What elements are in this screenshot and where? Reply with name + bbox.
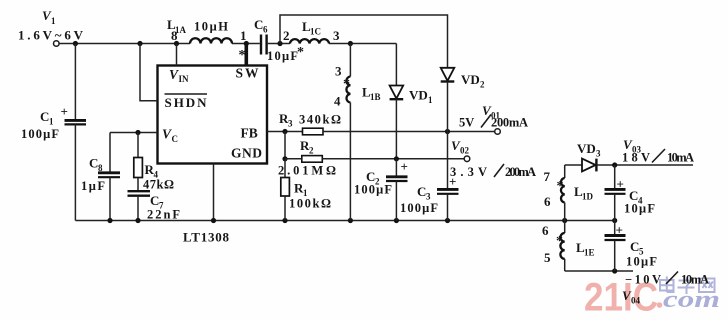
svg-text:3: 3: [288, 119, 293, 129]
svg-text:4: 4: [334, 94, 341, 109]
wire V02 line left: [285, 158, 302, 160]
IC U1 LT1308 box: [158, 66, 268, 164]
node junction C1 tap: [73, 41, 78, 46]
svg-text:FB: FB: [241, 126, 258, 141]
svg-text:1: 1: [51, 16, 56, 26]
inductor L1E: [542, 221, 595, 272]
node junction C4 C5 rail: [612, 218, 617, 223]
wire top rail node2 to VD2: [280, 15, 448, 68]
terminal V1 input: [18, 8, 84, 46]
node junction C3 gnd: [445, 218, 450, 223]
watermark 21IC: [584, 276, 662, 320]
node junction C2 gnd: [394, 218, 399, 223]
svg-text:C: C: [254, 17, 263, 32]
svg-text:+: +: [617, 177, 624, 192]
node junction GND pin rail: [211, 218, 216, 223]
svg-text:2: 2: [309, 146, 314, 156]
svg-text:100μF: 100μF: [400, 201, 438, 215]
node junction R1 gnd: [282, 218, 287, 223]
svg-text:1D: 1D: [582, 192, 594, 202]
wire FB down link: [284, 132, 286, 159]
wire L1A to C6: [232, 43, 260, 45]
svg-text:2: 2: [480, 80, 485, 90]
node junction L1D L1E rail: [562, 218, 567, 223]
svg-text:IN: IN: [179, 74, 190, 84]
svg-text:04: 04: [631, 296, 641, 306]
svg-text:+: +: [401, 159, 408, 174]
node 8 junction VIN tap: [174, 41, 179, 46]
svg-text:SW: SW: [236, 66, 260, 81]
wire -10V line: [565, 270, 633, 272]
svg-text:02: 02: [460, 146, 470, 156]
diode VD1: [390, 44, 433, 159]
svg-text:2.01MΩ: 2.01MΩ: [278, 164, 336, 178]
svg-text:6: 6: [263, 25, 268, 35]
capacitor C7: [128, 178, 181, 222]
svg-text:7: 7: [544, 169, 551, 184]
svg-text:22nF: 22nF: [147, 208, 180, 222]
watermark dian zi wang glyphs: [660, 277, 715, 295]
wire SHDN tap: [140, 44, 158, 101]
resistor R4: [134, 133, 174, 192]
node junction SHDN tap: [137, 41, 142, 46]
label -10V output: [625, 272, 709, 287]
node junction VD3 C4: [612, 162, 617, 167]
wire L1C to node3 to VD1 corner: [329, 43, 396, 45]
wire V02 line: [322, 158, 464, 160]
resistor R1: [281, 159, 331, 221]
diode VD2: [441, 68, 485, 189]
svg-text:18V: 18V: [622, 151, 650, 165]
svg-text:GND: GND: [231, 146, 262, 161]
svg-text:C: C: [150, 193, 159, 208]
svg-text:10μH: 10μH: [194, 20, 228, 34]
svg-text:C: C: [40, 109, 49, 124]
svg-text:8: 8: [171, 28, 178, 43]
svg-text:*: *: [557, 179, 564, 194]
svg-text:200mA: 200mA: [491, 116, 528, 130]
capacitor C2 100uF: [354, 159, 408, 221]
wire V03 line left: [565, 164, 582, 166]
label V03 output: [622, 137, 694, 165]
svg-text:VD: VD: [409, 88, 428, 103]
node junction C5 out: [612, 268, 617, 273]
capacitor C6: [254, 17, 304, 63]
node 2 junction: [277, 41, 282, 46]
svg-text:C: C: [172, 134, 179, 144]
svg-text:3: 3: [596, 149, 601, 159]
node 1 junction SW: [244, 41, 249, 46]
node junction VD2 V01: [445, 129, 450, 134]
svg-text:100μF: 100μF: [354, 183, 392, 197]
capacitor C5 10uF: [605, 221, 658, 272]
svg-text:VD: VD: [461, 72, 480, 87]
wire SW pin thick: [245, 44, 249, 66]
svg-text:LT1308: LT1308: [183, 230, 230, 245]
svg-text:*: *: [239, 48, 246, 63]
svg-text:V: V: [169, 67, 179, 82]
terminal V02: [450, 138, 536, 179]
wire VIN tap: [176, 44, 178, 66]
node junction L1B gnd: [348, 218, 353, 223]
svg-text:1E: 1E: [584, 248, 595, 258]
svg-text:1μF: 1μF: [81, 179, 105, 193]
diode VD3: [577, 141, 693, 171]
svg-text:C: C: [417, 184, 426, 199]
terminal V01: [459, 103, 528, 134]
node junction FB R3: [282, 129, 287, 134]
resistor R2: [278, 138, 336, 178]
wire GND pin: [213, 164, 215, 221]
node junction VD1 V02: [394, 156, 399, 161]
wire C6 to L1C: [268, 43, 290, 45]
svg-text:+: +: [616, 223, 623, 238]
svg-text:1C: 1C: [310, 27, 321, 37]
svg-text:1B: 1B: [370, 92, 381, 102]
svg-text:1: 1: [428, 95, 433, 105]
node junction C8 gnd: [107, 218, 112, 223]
svg-text:10μF: 10μF: [624, 202, 655, 216]
ground rail: [75, 220, 614, 222]
svg-text:−10V: −10V: [625, 273, 661, 287]
svg-text:200mA: 200mA: [505, 165, 536, 179]
svg-text:2: 2: [283, 28, 290, 43]
svg-text:com: com: [663, 287, 720, 313]
svg-text:3: 3: [426, 192, 431, 202]
svg-text:1: 1: [240, 28, 247, 43]
node junction C7 gnd: [135, 218, 140, 223]
svg-text:10μF: 10μF: [626, 255, 657, 269]
svg-text:C: C: [89, 156, 98, 171]
svg-text:10μF: 10μF: [267, 49, 298, 63]
svg-text:6: 6: [542, 223, 549, 238]
wire main input rail: [59, 43, 190, 45]
label V04: [622, 288, 641, 306]
capacitor C1 100uF: [21, 44, 86, 221]
svg-text:10mA: 10mA: [681, 273, 709, 287]
node junction VC/R4: [135, 130, 140, 135]
svg-text:100μF: 100μF: [21, 127, 59, 141]
svg-text:3: 3: [333, 28, 340, 43]
svg-text:1.6V~6V: 1.6V~6V: [18, 28, 84, 43]
svg-text:*: *: [297, 45, 304, 60]
svg-text:5V: 5V: [459, 116, 474, 130]
wire V01 line: [323, 131, 495, 133]
inductor L1B: [334, 44, 381, 221]
capacitor C4 10uF: [605, 165, 656, 221]
svg-text:6: 6: [544, 194, 551, 209]
svg-text:C: C: [630, 239, 639, 254]
inductor L1D: [544, 165, 594, 221]
node 3 junction: [348, 41, 353, 46]
resistor R3: [279, 111, 341, 135]
svg-text:V: V: [162, 127, 172, 142]
svg-text:VD: VD: [577, 141, 596, 156]
svg-text:3: 3: [335, 64, 342, 79]
svg-text:*: *: [556, 234, 563, 249]
inductor L1A: [167, 17, 247, 44]
svg-text:*: *: [343, 77, 350, 92]
svg-text:10mA: 10mA: [667, 151, 694, 165]
wire VC line: [110, 132, 158, 134]
svg-text:47kΩ: 47kΩ: [143, 178, 174, 192]
svg-text:+: +: [449, 174, 456, 189]
svg-text:SHDN: SHDN: [165, 95, 208, 110]
svg-text:+: +: [61, 104, 68, 119]
svg-text:8: 8: [98, 163, 103, 173]
capacitor C8 1uF: [81, 133, 120, 221]
wire FB line to R3: [267, 131, 303, 133]
capacitor C3 100uF: [400, 174, 459, 221]
svg-text:5: 5: [544, 250, 551, 265]
svg-text:1: 1: [49, 117, 54, 127]
inductor L1C: [290, 19, 340, 44]
node junction R2 tap: [282, 156, 287, 161]
